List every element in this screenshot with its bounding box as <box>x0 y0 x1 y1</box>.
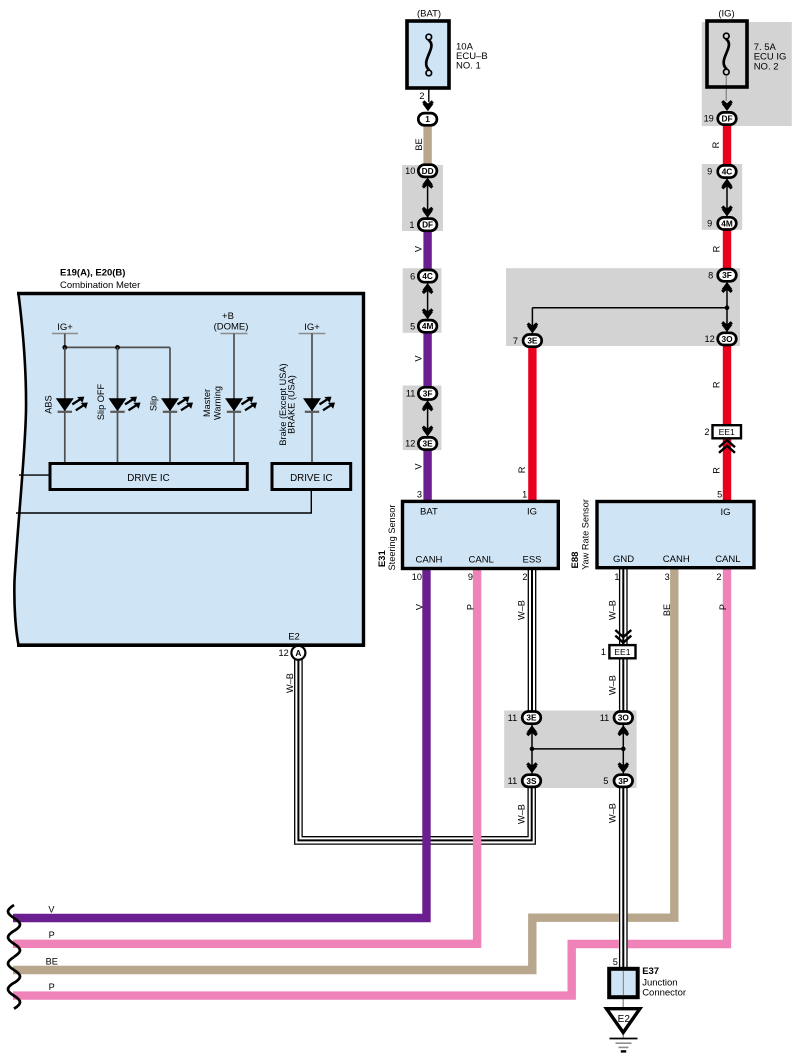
svg-text:W–B: W–B <box>608 803 618 823</box>
svg-text:9: 9 <box>468 572 473 582</box>
svg-text:DRIVE IC: DRIVE IC <box>290 473 332 484</box>
svg-text:CANL: CANL <box>715 554 740 565</box>
svg-text:V: V <box>415 603 425 610</box>
svg-text:3F: 3F <box>423 388 433 398</box>
svg-text:4M: 4M <box>422 321 434 331</box>
svg-text:IG: IG <box>527 507 537 518</box>
svg-text:5: 5 <box>717 490 722 500</box>
svg-text:10: 10 <box>405 166 415 176</box>
svg-text:11: 11 <box>600 713 610 723</box>
svg-text:Steering Sensor: Steering Sensor <box>387 505 397 571</box>
svg-text:3E: 3E <box>527 336 538 346</box>
svg-text:DF: DF <box>422 220 433 230</box>
svg-text:1: 1 <box>614 572 619 582</box>
svg-text:V: V <box>414 463 424 470</box>
svg-text:1: 1 <box>601 647 606 657</box>
svg-text:E2: E2 <box>288 632 300 643</box>
svg-text:11: 11 <box>406 389 416 399</box>
svg-text:EE1: EE1 <box>614 647 630 657</box>
svg-text:1: 1 <box>425 114 430 124</box>
svg-text:W–B: W–B <box>285 673 295 693</box>
svg-text:R: R <box>711 141 721 148</box>
svg-text:3O: 3O <box>721 334 733 344</box>
svg-text:2: 2 <box>704 427 709 437</box>
svg-text:BAT: BAT <box>420 507 438 518</box>
svg-text:E88: E88 <box>570 552 581 569</box>
svg-text:11: 11 <box>508 713 518 723</box>
svg-text:CANH: CANH <box>663 554 690 565</box>
svg-text:4M: 4M <box>721 218 733 228</box>
svg-text:W–B: W–B <box>608 675 618 695</box>
svg-text:R: R <box>712 381 722 388</box>
svg-text:IG: IG <box>721 507 731 518</box>
svg-text:EE1: EE1 <box>719 427 735 437</box>
svg-text:DF: DF <box>721 114 732 124</box>
svg-text:3F: 3F <box>722 270 732 280</box>
svg-text:Master: Master <box>202 389 212 417</box>
svg-text:3E: 3E <box>423 439 434 449</box>
svg-text:19: 19 <box>704 114 714 124</box>
svg-text:CANH: CANH <box>416 555 443 566</box>
svg-text:R: R <box>517 466 527 473</box>
svg-text:NO. 2: NO. 2 <box>754 61 779 72</box>
svg-text:IG+: IG+ <box>57 322 73 333</box>
svg-text:R: R <box>712 245 722 252</box>
svg-text:P: P <box>718 604 728 610</box>
svg-text:9: 9 <box>707 167 712 177</box>
svg-text:+B: +B <box>222 311 234 322</box>
svg-text:12: 12 <box>405 439 415 449</box>
svg-text:V: V <box>414 245 424 252</box>
svg-text:A: A <box>295 648 301 658</box>
svg-text:GND: GND <box>613 554 634 565</box>
svg-text:R: R <box>712 467 722 474</box>
svg-text:5: 5 <box>613 957 618 967</box>
svg-text:3: 3 <box>417 489 422 499</box>
svg-text:11: 11 <box>508 776 518 786</box>
svg-text:5: 5 <box>410 321 415 331</box>
svg-text:Slip: Slip <box>149 396 159 411</box>
svg-text:2: 2 <box>716 572 721 582</box>
svg-text:Combination Meter: Combination Meter <box>60 280 140 291</box>
svg-text:P: P <box>49 982 55 992</box>
svg-text:Yaw Rate Sensor: Yaw Rate Sensor <box>581 499 591 570</box>
svg-text:BRAKE (USA): BRAKE (USA) <box>287 375 297 434</box>
svg-text:10: 10 <box>412 572 422 582</box>
svg-text:BE: BE <box>662 604 672 616</box>
svg-text:ESS: ESS <box>523 555 542 566</box>
svg-text:(IG): (IG) <box>718 9 734 20</box>
svg-text:12: 12 <box>704 334 714 344</box>
svg-text:E37: E37 <box>642 966 659 977</box>
svg-text:DRIVE IC: DRIVE IC <box>127 473 169 484</box>
svg-text:3P: 3P <box>618 776 629 786</box>
svg-text:6: 6 <box>410 271 415 281</box>
svg-text:3O: 3O <box>618 713 630 723</box>
svg-text:4C: 4C <box>422 271 433 281</box>
svg-text:2: 2 <box>522 572 527 582</box>
svg-text:NO. 1: NO. 1 <box>456 61 481 72</box>
svg-text:W–B: W–B <box>517 600 527 620</box>
svg-text:CANL: CANL <box>469 555 494 566</box>
svg-text:1: 1 <box>409 220 414 230</box>
svg-text:(BAT): (BAT) <box>417 9 441 20</box>
svg-text:3S: 3S <box>526 776 537 786</box>
svg-text:W–B: W–B <box>608 600 618 620</box>
svg-text:12: 12 <box>278 648 288 658</box>
svg-text:W–B: W–B <box>517 804 527 824</box>
svg-text:P: P <box>49 930 55 940</box>
svg-text:ABS: ABS <box>44 395 54 413</box>
svg-text:5: 5 <box>603 776 608 786</box>
svg-text:P: P <box>466 604 476 610</box>
svg-text:E19(A), E20(B): E19(A), E20(B) <box>60 267 125 278</box>
svg-text:BE: BE <box>414 138 424 150</box>
svg-text:(DOME): (DOME) <box>214 322 249 333</box>
svg-text:BE: BE <box>46 956 58 966</box>
svg-text:4C: 4C <box>722 167 733 177</box>
svg-text:8: 8 <box>708 270 713 280</box>
svg-text:Connector: Connector <box>642 987 686 998</box>
svg-text:Warning: Warning <box>213 386 223 420</box>
svg-text:V: V <box>414 355 424 362</box>
svg-text:V: V <box>48 904 55 914</box>
svg-text:IG+: IG+ <box>304 322 320 333</box>
svg-text:3: 3 <box>665 572 670 582</box>
svg-text:DD: DD <box>422 166 434 176</box>
svg-text:2: 2 <box>419 91 424 101</box>
svg-text:7: 7 <box>513 336 518 346</box>
svg-text:E2: E2 <box>618 1014 631 1025</box>
svg-text:Slip OFF: Slip OFF <box>96 383 106 420</box>
svg-text:3E: 3E <box>526 713 537 723</box>
svg-text:1: 1 <box>522 489 527 499</box>
svg-text:9: 9 <box>707 219 712 229</box>
